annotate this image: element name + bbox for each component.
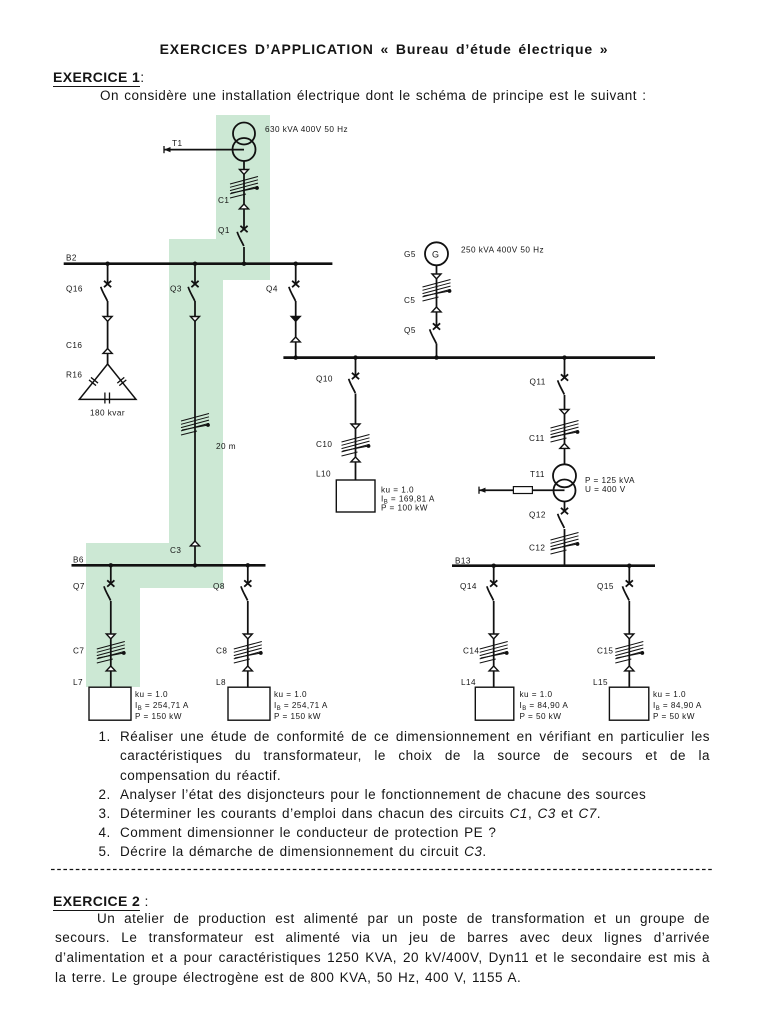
- svg-text:L10: L10: [316, 470, 331, 479]
- svg-text:ku = 1.0: ku = 1.0: [135, 690, 168, 699]
- svg-text:B13: B13: [455, 557, 471, 566]
- svg-text:G: G: [432, 250, 439, 260]
- svg-text:ku = 1.0: ku = 1.0: [653, 690, 686, 699]
- svg-text:B6: B6: [73, 556, 84, 565]
- svg-text:IB = 84,90 A: IB = 84,90 A: [653, 701, 702, 712]
- svg-text:C14: C14: [463, 647, 479, 656]
- svg-text:P = 50 kW: P = 50 kW: [520, 712, 562, 721]
- svg-text:U = 400 V: U = 400 V: [585, 485, 626, 494]
- svg-text:IB = 254,71 A: IB = 254,71 A: [274, 701, 328, 712]
- svg-text:Q4: Q4: [266, 285, 278, 294]
- svg-text:ku = 1.0: ku = 1.0: [274, 690, 307, 699]
- svg-text:C8: C8: [216, 647, 227, 656]
- svg-text:B2: B2: [66, 254, 77, 263]
- svg-text:L15: L15: [593, 678, 608, 687]
- svg-text:T1: T1: [172, 139, 182, 148]
- svg-text:ku = 1.0: ku = 1.0: [520, 690, 553, 699]
- svg-text:P = 100 kW: P = 100 kW: [381, 504, 428, 513]
- svg-text:250 kVA 400V 50 Hz: 250 kVA 400V 50 Hz: [461, 246, 544, 255]
- svg-text:C16: C16: [66, 341, 82, 350]
- svg-text:Q10: Q10: [316, 375, 333, 384]
- svg-text:G5: G5: [404, 250, 416, 259]
- svg-text:Q7: Q7: [73, 582, 85, 591]
- svg-text:180 kvar: 180 kvar: [90, 409, 125, 418]
- svg-text:R16: R16: [66, 371, 82, 380]
- svg-text:C1: C1: [218, 196, 229, 205]
- svg-text:C10: C10: [316, 440, 332, 449]
- svg-text:C15: C15: [597, 647, 613, 656]
- svg-text:C11: C11: [529, 434, 545, 443]
- svg-text:L8: L8: [216, 678, 226, 687]
- svg-text:20 m: 20 m: [216, 442, 236, 451]
- svg-text:Q3: Q3: [170, 285, 182, 294]
- svg-text:C12: C12: [529, 544, 545, 553]
- svg-text:IB = 254,71 A: IB = 254,71 A: [135, 701, 189, 712]
- svg-text:Q12: Q12: [529, 511, 546, 520]
- svg-text:T11: T11: [530, 470, 545, 479]
- svg-text:Q5: Q5: [404, 326, 416, 335]
- svg-text:Q1: Q1: [218, 226, 230, 235]
- svg-text:P = 150 kW: P = 150 kW: [274, 712, 321, 721]
- svg-text:630 kVA 400V 50 Hz: 630 kVA 400V 50 Hz: [265, 125, 348, 134]
- svg-text:P = 125 kVA: P = 125 kVA: [585, 476, 635, 485]
- svg-text:IB = 84,90 A: IB = 84,90 A: [520, 701, 569, 712]
- svg-text:Q16: Q16: [66, 285, 83, 294]
- svg-text:L7: L7: [73, 678, 83, 687]
- svg-text:Q15: Q15: [597, 582, 614, 591]
- svg-text:Q8: Q8: [213, 582, 225, 591]
- svg-text:Q14: Q14: [460, 582, 477, 591]
- svg-text:C3: C3: [170, 546, 181, 555]
- svg-text:L14: L14: [461, 678, 476, 687]
- svg-text:C7: C7: [73, 647, 84, 656]
- svg-text:Q11: Q11: [530, 378, 546, 387]
- svg-text:C5: C5: [404, 296, 415, 305]
- svg-text:ku = 1.0: ku = 1.0: [381, 486, 414, 495]
- svg-text:P = 150 kW: P = 150 kW: [135, 712, 182, 721]
- svg-text:P = 50 kW: P = 50 kW: [653, 712, 695, 721]
